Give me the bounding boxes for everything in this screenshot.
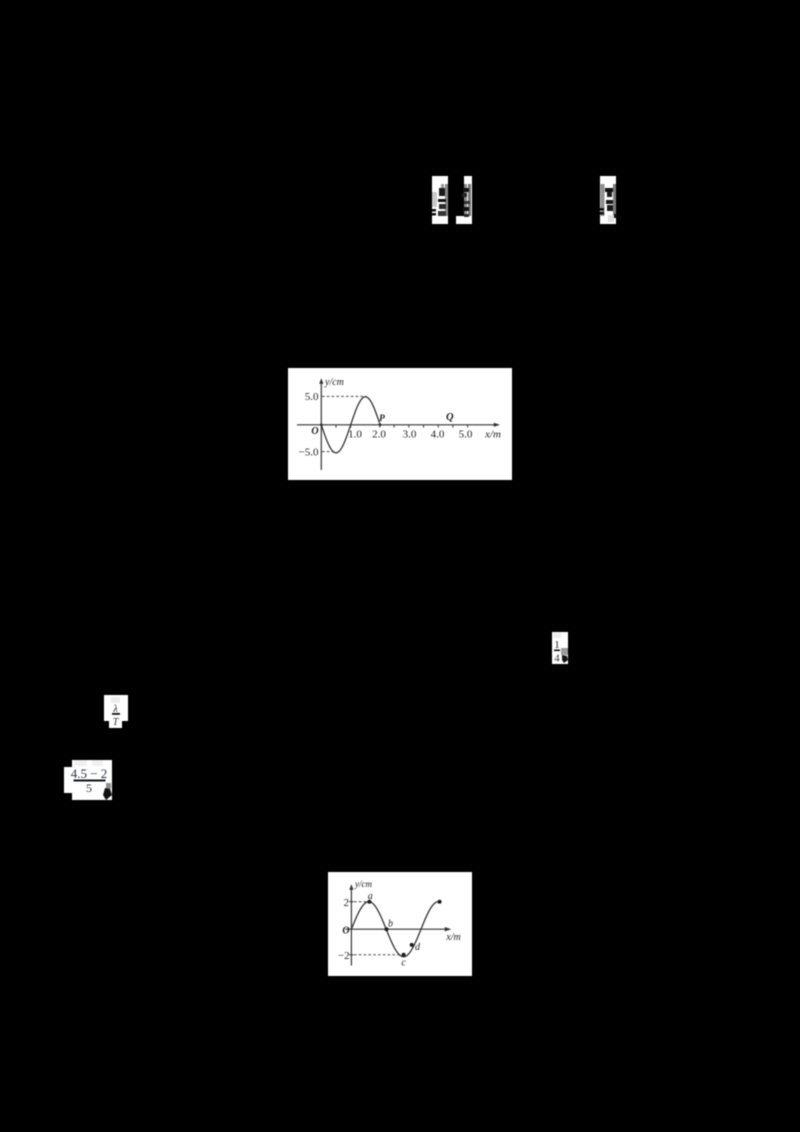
svg-text:4.5 − 2: 4.5 − 2 (71, 766, 108, 781)
svg-text:y/cm: y/cm (324, 377, 344, 388)
svg-text:1: 1 (554, 639, 560, 651)
svg-text:x/m: x/m (484, 429, 501, 441)
svg-text:2.0: 2.0 (372, 429, 386, 441)
svg-text:x/m: x/m (445, 932, 460, 943)
svg-text:d: d (415, 942, 421, 953)
svg-text:1.0: 1.0 (348, 429, 362, 441)
svg-text:O: O (342, 926, 349, 937)
svg-text:4: 4 (554, 653, 560, 665)
svg-text:P: P (379, 414, 385, 424)
svg-text:3.0: 3.0 (403, 429, 417, 441)
svg-text:5.0: 5.0 (305, 391, 319, 403)
svg-text:5.0: 5.0 (459, 429, 473, 441)
svg-text:O: O (311, 426, 318, 437)
svg-text:a: a (368, 891, 373, 902)
svg-text:Q: Q (446, 412, 454, 423)
svg-text:y/cm: y/cm (354, 879, 372, 889)
svg-text:T: T (113, 717, 120, 728)
svg-text:−5.0: −5.0 (299, 446, 319, 458)
svg-text:4.0: 4.0 (431, 429, 445, 441)
svg-text:5: 5 (86, 781, 92, 795)
svg-text:−2: −2 (338, 950, 350, 962)
svg-text:2: 2 (344, 897, 350, 909)
svg-text:c: c (401, 958, 406, 969)
svg-text:b: b (388, 919, 393, 930)
